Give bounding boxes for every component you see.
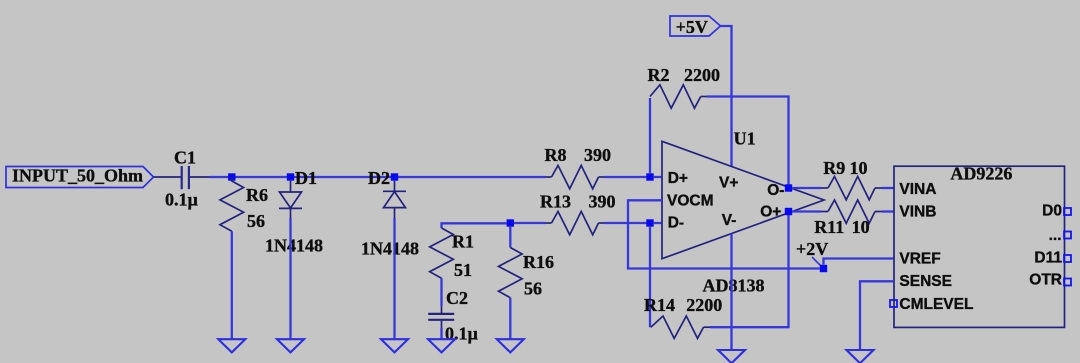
wire R6 to ground bbox=[231, 231, 233, 339]
svg-text:R1: R1 bbox=[452, 232, 474, 252]
svg-text:10: 10 bbox=[850, 158, 868, 178]
wire R13 to D- bbox=[605, 222, 651, 224]
capacitor C2 bbox=[428, 288, 478, 344]
resistor R2 bbox=[648, 65, 721, 108]
pin D0 open square bbox=[1064, 208, 1071, 215]
wire D+ to R2 bbox=[649, 98, 651, 173]
ground bbox=[428, 339, 455, 352]
svg-text:+2V: +2V bbox=[796, 239, 828, 259]
svg-text:D1: D1 bbox=[295, 168, 317, 188]
wire SENSE to ground bbox=[860, 281, 894, 350]
wire C2 to ground bbox=[440, 328, 442, 339]
resistor R6 bbox=[220, 177, 268, 231]
svg-text:V-: V- bbox=[722, 212, 737, 229]
svg-text:D11: D11 bbox=[1034, 249, 1062, 266]
wire R8 to D+ bbox=[605, 176, 651, 178]
node junction O- bbox=[785, 184, 792, 191]
svg-text:0.1µ: 0.1µ bbox=[165, 190, 199, 210]
svg-text:VREF: VREF bbox=[899, 251, 940, 268]
node junction D+ bbox=[646, 173, 653, 180]
node +2V label bbox=[796, 239, 828, 267]
svg-text:O+: O+ bbox=[760, 204, 781, 221]
svg-text:R16: R16 bbox=[523, 252, 554, 272]
svg-text:D2: D2 bbox=[368, 168, 390, 188]
diode D1 bbox=[265, 168, 323, 256]
node junction at D1 bbox=[287, 173, 294, 180]
ground SENSE bbox=[847, 350, 874, 363]
svg-text:R11: R11 bbox=[814, 217, 844, 237]
wire R11 to VINB bbox=[882, 210, 894, 212]
resistor R16 bbox=[499, 248, 555, 299]
resistor R11 bbox=[814, 200, 882, 237]
ground V- bbox=[718, 350, 745, 363]
op-amp U1 AD8138 bbox=[662, 128, 824, 295]
svg-text:390: 390 bbox=[589, 191, 616, 211]
pin OTR open square bbox=[1064, 279, 1071, 286]
wire O+ to R11 bbox=[792, 210, 821, 212]
svg-text:56: 56 bbox=[524, 279, 542, 299]
capacitor C1 bbox=[154, 148, 210, 210]
ground bbox=[277, 339, 304, 352]
resistor R13 bbox=[540, 191, 616, 235]
svg-text:AD8138: AD8138 bbox=[703, 275, 765, 295]
node junction O+ bbox=[785, 208, 792, 215]
wire +5V to V+ bbox=[721, 26, 732, 166]
svg-text:V+: V+ bbox=[719, 175, 738, 192]
wire +2V to VREF bbox=[824, 259, 895, 265]
wire D+ stub bbox=[654, 176, 662, 178]
svg-text:0.1µ: 0.1µ bbox=[445, 324, 479, 344]
svg-text:R13: R13 bbox=[540, 191, 571, 211]
svg-text:2200: 2200 bbox=[684, 65, 720, 85]
svg-text:...: ... bbox=[1049, 227, 1062, 244]
wire junction to R13 bbox=[514, 222, 546, 224]
wire R2 to O- bbox=[707, 97, 789, 187]
wire R9 to VINA bbox=[882, 187, 894, 189]
pin ... open square bbox=[1064, 232, 1071, 239]
svg-text:R8: R8 bbox=[545, 145, 567, 165]
svg-text:C1: C1 bbox=[174, 148, 196, 168]
svg-text:R2: R2 bbox=[648, 65, 670, 85]
svg-text:U1: U1 bbox=[734, 128, 756, 148]
node junction at D2 bbox=[391, 173, 398, 180]
svg-text:C2: C2 bbox=[446, 288, 468, 308]
svg-text:10: 10 bbox=[852, 217, 870, 237]
ground bbox=[381, 339, 408, 352]
wire main bus C1 to R8 bbox=[209, 176, 546, 178]
diode D2 bbox=[361, 168, 419, 259]
svg-text:R14: R14 bbox=[644, 295, 675, 315]
node INPUT_50_Ohm port flag bbox=[6, 165, 154, 187]
svg-text:56: 56 bbox=[247, 211, 265, 231]
node junction at C1/R6 bbox=[228, 173, 235, 180]
svg-text:1N4148: 1N4148 bbox=[361, 239, 419, 259]
svg-text:D0: D0 bbox=[1042, 202, 1062, 219]
svg-text:OTR: OTR bbox=[1029, 272, 1062, 289]
svg-text:51: 51 bbox=[454, 260, 472, 280]
node junction R1/R16/R13 bbox=[507, 219, 514, 226]
node junction D- bbox=[646, 219, 653, 226]
svg-text:R6: R6 bbox=[246, 185, 268, 205]
wire VOCM bbox=[628, 200, 820, 268]
svg-text:SENSE: SENSE bbox=[899, 273, 952, 290]
svg-text:O-: O- bbox=[767, 182, 784, 199]
svg-text:AD9226: AD9226 bbox=[950, 164, 1012, 184]
wire R16 to ground bbox=[509, 298, 511, 340]
node junction +2V bbox=[820, 265, 827, 272]
svg-text:VINA: VINA bbox=[899, 181, 936, 198]
resistor R9 bbox=[821, 158, 882, 200]
svg-text:VINB: VINB bbox=[899, 204, 936, 221]
resistor R14 bbox=[644, 295, 722, 338]
svg-text:D-: D- bbox=[668, 215, 684, 232]
svg-text:CMLEVEL: CMLEVEL bbox=[899, 296, 973, 313]
svg-text:VOCM: VOCM bbox=[667, 193, 714, 210]
wire D- to R14 bbox=[649, 227, 651, 328]
wire R1 top bbox=[442, 223, 507, 228]
svg-text:2200: 2200 bbox=[686, 295, 722, 315]
svg-text:390: 390 bbox=[584, 145, 611, 165]
wire D1 to ground bbox=[289, 218, 291, 339]
wire R16 top bbox=[509, 227, 511, 248]
node +5V port flag bbox=[670, 16, 721, 37]
svg-text:D+: D+ bbox=[668, 170, 688, 187]
wire O- to R9 bbox=[792, 187, 821, 189]
wire D- stub bbox=[654, 222, 662, 224]
wire V- to ground bbox=[730, 233, 732, 350]
pin D11 open square bbox=[1064, 255, 1071, 262]
ground bbox=[497, 339, 524, 352]
svg-text:INPUT_50_Ohm: INPUT_50_Ohm bbox=[12, 165, 143, 185]
svg-text:+5V: +5V bbox=[676, 17, 708, 37]
wire R1 to C2 bbox=[440, 278, 442, 306]
pin CMLEVEL open square bbox=[890, 300, 897, 307]
svg-text:1N4148: 1N4148 bbox=[265, 236, 323, 256]
resistor R8 bbox=[545, 145, 612, 189]
wire R14 to O+ bbox=[710, 214, 789, 328]
resistor R1 bbox=[430, 228, 474, 280]
ground bbox=[218, 339, 245, 352]
svg-text:R9: R9 bbox=[823, 158, 845, 178]
wire D2 to ground bbox=[393, 218, 395, 339]
IC AD9226 box bbox=[894, 164, 1065, 328]
